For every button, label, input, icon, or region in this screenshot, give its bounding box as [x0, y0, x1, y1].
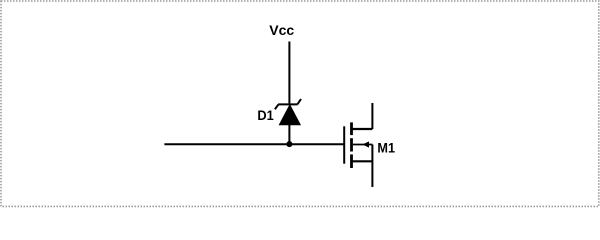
zener diode D1	[275, 99, 301, 125]
svg-text:Vcc: Vcc	[269, 22, 294, 38]
wire horizontal to gate of M1	[164, 143, 344, 145]
svg-text:M1: M1	[377, 139, 395, 155]
transistor M1 (N-MOSFET)	[344, 103, 372, 187]
svg-text:D1: D1	[257, 107, 274, 123]
wire D1 anode to node	[288, 124, 290, 144]
node junction dot	[286, 141, 292, 147]
wire Vcc to D1 cathode	[288, 42, 290, 105]
